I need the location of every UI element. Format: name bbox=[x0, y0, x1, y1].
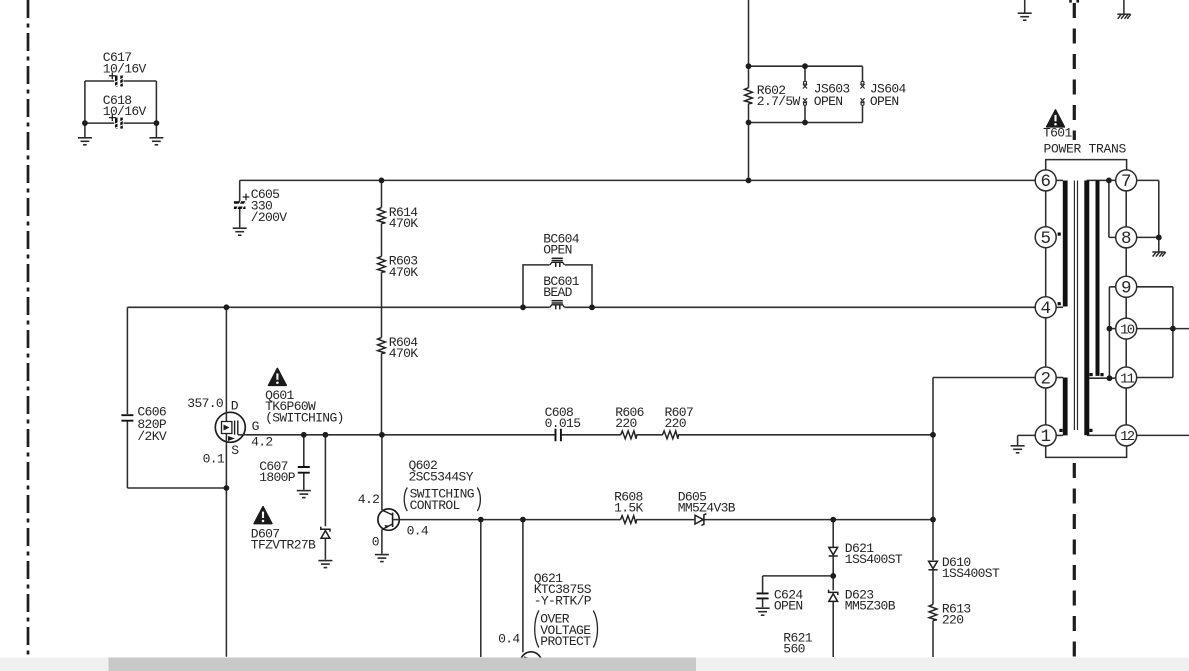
svg-text:CONTROL: CONTROL bbox=[410, 498, 460, 513]
winding polarity dot pin1 bbox=[1059, 429, 1062, 432]
resistor R608 bbox=[614, 490, 643, 524]
junction C618 right bbox=[154, 120, 160, 126]
transformer T601 bbox=[1046, 160, 1127, 458]
pin 4 bbox=[1035, 297, 1056, 319]
label Q602 bbox=[409, 458, 474, 484]
wire pin1 to winding bbox=[1056, 434, 1063, 436]
wire pin11 right bbox=[1137, 377, 1173, 379]
svg-text:7: 7 bbox=[1121, 172, 1132, 192]
junction top rail / R602 bbox=[746, 178, 752, 184]
svg-text:1SS400ST: 1SS400ST bbox=[845, 552, 903, 567]
wire pin2 to feedback bbox=[933, 377, 1035, 379]
junction gate rail / feedback drop bbox=[930, 432, 936, 438]
svg-text:OPEN: OPEN bbox=[543, 243, 572, 258]
pin 2 bbox=[1035, 367, 1056, 389]
resistor R613 bbox=[929, 602, 970, 628]
ground (C605) bbox=[233, 228, 247, 235]
wire mid rail (snubber rail to pin 4) bbox=[127, 306, 1035, 308]
wire pin10 right bbox=[1137, 328, 1189, 330]
wire winding to pin7 bbox=[1087, 179, 1116, 181]
junction gate rail / C607 bbox=[301, 432, 307, 438]
svg-text:OPEN: OPEN bbox=[814, 94, 843, 109]
dash marks at top edge bbox=[1069, 0, 1072, 3]
junction base rail / feedback drop bbox=[930, 517, 936, 523]
wire C607 branch bbox=[303, 435, 305, 490]
wire Q602 emitter bbox=[381, 530, 383, 554]
diode D621 bbox=[829, 541, 903, 567]
svg-text:6: 6 bbox=[1040, 172, 1051, 192]
svg-text:S: S bbox=[231, 443, 239, 458]
svg-text:/2KV: /2KV bbox=[137, 429, 166, 444]
junction pin7 bbox=[1106, 178, 1112, 184]
wire pin2 to winding bbox=[1056, 377, 1063, 379]
transformer core lines bbox=[1074, 181, 1077, 431]
wire pin11 left link bbox=[1087, 377, 1116, 379]
winding polarity dot pin4 bbox=[1058, 302, 1061, 305]
svg-text:T601: T601 bbox=[1043, 126, 1072, 141]
transformer top bracket bbox=[1046, 160, 1127, 170]
junction pin11 left bbox=[1107, 375, 1113, 381]
zener D605 bbox=[678, 490, 736, 526]
resistor R607 bbox=[663, 405, 694, 439]
diode D610 bbox=[928, 555, 1000, 581]
wire C606 branch bbox=[127, 307, 226, 488]
label Q602 paren block bbox=[404, 487, 480, 514]
scrollbar thumb bbox=[109, 658, 697, 671]
bead BC604 loop bbox=[523, 265, 592, 307]
junction pin8 right bbox=[1156, 235, 1162, 241]
wire OVP divider drop 1 bbox=[480, 520, 482, 657]
svg-text:10: 10 bbox=[1120, 322, 1135, 338]
wire pin8 left link bbox=[1109, 180, 1116, 237]
ground (C618 right) bbox=[149, 138, 163, 145]
junction D621 / D623 / C624 bbox=[830, 573, 836, 579]
isolation boundary dashed line (upper) bbox=[1073, 3, 1076, 140]
pin 5 bbox=[1035, 227, 1056, 249]
svg-text:MM5Z30B: MM5Z30B bbox=[845, 599, 896, 614]
svg-text:0: 0 bbox=[372, 535, 379, 550]
junction JS603 bottom bbox=[802, 120, 808, 126]
resistor R602 bbox=[745, 83, 801, 109]
wire Q621 base drop bbox=[522, 520, 524, 653]
svg-text:470K: 470K bbox=[389, 216, 418, 231]
MOSFET Q601 bbox=[215, 412, 245, 442]
capacitor C618 bbox=[103, 93, 147, 129]
svg-text:357.0: 357.0 bbox=[187, 396, 223, 411]
svg-text:PROTECT: PROTECT bbox=[540, 634, 591, 649]
pin 12 bbox=[1116, 425, 1137, 446]
wire JS box top bbox=[749, 65, 863, 67]
svg-text:0.4: 0.4 bbox=[407, 523, 429, 538]
wire JS603 stubs bbox=[804, 66, 806, 122]
transformer primary winding bar (pins 6-4) bbox=[1063, 181, 1068, 307]
resistor R614 bbox=[378, 205, 419, 231]
zener D623 bbox=[829, 588, 896, 614]
capacitor C607 bbox=[259, 459, 310, 485]
svg-text:TFZVTR27B: TFZVTR27B bbox=[251, 538, 316, 553]
svg-text:MM5Z4V3B: MM5Z4V3B bbox=[678, 501, 736, 516]
svg-text:2SC5344SY: 2SC5344SY bbox=[409, 469, 474, 484]
capacitor C605 bbox=[234, 187, 287, 225]
svg-text:1.5K: 1.5K bbox=[614, 501, 643, 516]
ground (C607) bbox=[297, 491, 311, 498]
junction mid rail / Q601 drain bbox=[224, 304, 230, 310]
wire pin6 to winding bbox=[1056, 179, 1063, 181]
svg-text:0.1: 0.1 bbox=[203, 451, 225, 466]
wire top ground stub bbox=[1024, 0, 1026, 13]
svg-text:POWER TRANS: POWER TRANS bbox=[1044, 141, 1127, 156]
transformer secondary winding bar (tall) bbox=[1084, 181, 1089, 436]
junction C606 bottom / source line bbox=[224, 485, 230, 491]
svg-text:OPEN: OPEN bbox=[870, 94, 899, 109]
wire top chassis ground stub bbox=[1123, 0, 1125, 14]
winding polarity dot pin11 b bbox=[1100, 373, 1103, 376]
transformer primary winding bar (pins 2-1) bbox=[1063, 378, 1068, 436]
svg-text:2: 2 bbox=[1040, 369, 1051, 389]
wire C618 loop bottom bbox=[85, 122, 156, 124]
transistor Q602 bbox=[378, 509, 400, 530]
transformer secondary winding bar (short) bbox=[1096, 181, 1100, 376]
wire R602 top feed bbox=[748, 0, 750, 180]
capacitor C617 bbox=[103, 50, 147, 87]
wire pin4 to winding bbox=[1056, 306, 1063, 308]
svg-text:220: 220 bbox=[665, 416, 686, 431]
wire Q601 source (to bottom) bbox=[225, 442, 227, 657]
wire C605 stem bbox=[239, 180, 241, 227]
ground (pin 1) bbox=[1011, 446, 1025, 453]
ground (D607) bbox=[318, 561, 332, 568]
ground (top edge) bbox=[1018, 13, 1032, 20]
wire C624 link bbox=[763, 576, 834, 607]
junction JS box top left bbox=[746, 63, 752, 69]
wire C617 loop sides bbox=[85, 81, 156, 123]
svg-text:4.2: 4.2 bbox=[358, 492, 379, 507]
warning triangle Q601 bbox=[269, 368, 287, 385]
wire D621/D623 branch bbox=[832, 520, 834, 657]
resistor R604 bbox=[378, 335, 419, 361]
wire Q602 base rail bbox=[399, 519, 933, 521]
wire pin8 right bbox=[1137, 237, 1159, 251]
wire pin2 feedback drop (D610/R613) bbox=[932, 378, 934, 658]
svg-text:12: 12 bbox=[1120, 429, 1135, 445]
junction gate rail / D607 bbox=[323, 432, 329, 438]
capacitor C606 bbox=[121, 405, 166, 445]
jumper JS604 (open) bbox=[860, 81, 906, 109]
wire pin1 ground stub bbox=[1018, 435, 1036, 445]
ground (C617 left) bbox=[78, 138, 92, 145]
chassis ground (pin 8) bbox=[1152, 252, 1165, 257]
wire pin9 left link bbox=[1109, 287, 1115, 378]
wire pin9 right bbox=[1137, 287, 1173, 378]
junction C618 left bbox=[82, 120, 88, 126]
bead BC601 bbox=[543, 274, 580, 309]
svg-text:10/16V: 10/16V bbox=[103, 62, 147, 77]
svg-text:8: 8 bbox=[1121, 229, 1132, 249]
label R621 bbox=[783, 631, 812, 657]
winding polarity dot pin5 bbox=[1058, 233, 1061, 236]
junction top rail / R614 bbox=[379, 178, 385, 184]
pin 10 bbox=[1116, 318, 1137, 339]
isolation boundary dashed line (lower) bbox=[1073, 463, 1076, 657]
svg-text:470K: 470K bbox=[389, 346, 418, 361]
capacitor C624 bbox=[757, 588, 804, 614]
svg-text:1800P: 1800P bbox=[259, 470, 296, 485]
wire pin12 right bbox=[1137, 434, 1189, 436]
wire top rail (B+ to pin 6) bbox=[240, 179, 1035, 181]
scrollbar track bbox=[0, 658, 1189, 671]
transformer right pin links bbox=[1125, 191, 1127, 425]
page border (dash-dot, left edge) bbox=[27, 0, 30, 657]
ground (Q602) bbox=[375, 555, 389, 562]
svg-text:D: D bbox=[231, 399, 239, 414]
junction gate rail / R604 / Q602 bbox=[379, 432, 385, 438]
label Q621 paren block bbox=[535, 611, 598, 650]
svg-text:11: 11 bbox=[1120, 371, 1135, 387]
svg-text:-Y-RTK/P: -Y-RTK/P bbox=[534, 593, 592, 608]
label T601 bbox=[1043, 126, 1127, 157]
resistor R603 bbox=[378, 254, 419, 280]
pin 8 bbox=[1116, 227, 1137, 249]
junction JS603 top bbox=[802, 63, 808, 69]
wire JS604 stubs bbox=[862, 66, 864, 122]
junction pin10 left bbox=[1107, 326, 1113, 332]
svg-text:(SWITCHING): (SWITCHING) bbox=[265, 411, 344, 426]
transformer bottom bracket bbox=[1046, 446, 1127, 458]
wire JS box bottom bbox=[749, 122, 863, 124]
resistor R606 bbox=[615, 405, 644, 439]
winding polarity dot pin11 a bbox=[1090, 373, 1093, 376]
wire C617 ground stems bbox=[85, 123, 156, 137]
wire C617 loop top bbox=[85, 80, 156, 82]
wire R614/R603 divider chain bbox=[381, 180, 383, 434]
svg-text:0.015: 0.015 bbox=[545, 416, 581, 431]
junction base rail / D621 bbox=[830, 517, 836, 523]
jumper JS603 (open) bbox=[803, 81, 850, 109]
label Q601 bbox=[265, 388, 344, 426]
ground (C624) bbox=[756, 608, 770, 615]
zener D607 bbox=[321, 527, 330, 539]
pin 1 bbox=[1035, 425, 1056, 447]
capacitor C608 bbox=[545, 405, 581, 441]
transistor Q621 (partially hidden) bbox=[520, 652, 541, 671]
svg-text:10/16V: 10/16V bbox=[103, 104, 147, 119]
junction JS box bottom left bbox=[746, 120, 752, 126]
label D607 bbox=[251, 527, 316, 553]
wire gate rail bbox=[245, 434, 933, 436]
wire pin10 left link bbox=[1109, 328, 1115, 330]
svg-text:0.4: 0.4 bbox=[498, 632, 520, 647]
junction BC601 left bbox=[520, 304, 526, 310]
label Q621 bbox=[534, 571, 592, 608]
warning triangle D607 bbox=[254, 507, 272, 524]
wire Q602 collector bbox=[381, 435, 383, 510]
pin 7 bbox=[1116, 170, 1137, 192]
wire pin7 to secondary bbox=[1137, 180, 1159, 237]
svg-text:1SS400ST: 1SS400ST bbox=[942, 566, 1000, 581]
svg-text:9: 9 bbox=[1121, 279, 1132, 299]
junction BC601 right bbox=[589, 304, 595, 310]
transformer left pin links bbox=[1045, 191, 1047, 425]
svg-text:4.2: 4.2 bbox=[251, 434, 272, 449]
pin 11 bbox=[1116, 367, 1137, 388]
wire D607 branch bbox=[324, 435, 326, 560]
svg-text:470K: 470K bbox=[389, 265, 418, 280]
svg-text:1: 1 bbox=[1040, 427, 1051, 447]
svg-text:G: G bbox=[252, 419, 259, 434]
junction pin10 right bbox=[1170, 326, 1176, 332]
svg-text:220: 220 bbox=[615, 416, 636, 431]
svg-text:4: 4 bbox=[1040, 299, 1051, 319]
svg-text:/200V: /200V bbox=[251, 210, 288, 225]
winding polarity dot pin12 bbox=[1089, 429, 1092, 432]
pin 6 bbox=[1035, 170, 1056, 192]
svg-text:5: 5 bbox=[1040, 229, 1051, 249]
junction base rail / Q621 base bbox=[520, 517, 526, 523]
wire Q601 drain bbox=[225, 307, 227, 412]
svg-text:560: 560 bbox=[783, 642, 804, 657]
svg-text:BEAD: BEAD bbox=[543, 285, 572, 300]
svg-text:2.7/5W: 2.7/5W bbox=[757, 94, 801, 109]
warning triangle T601 bbox=[1047, 110, 1065, 127]
pin 9 bbox=[1116, 276, 1137, 298]
junction base rail / OVP drop bbox=[478, 517, 484, 523]
svg-text:220: 220 bbox=[942, 613, 963, 628]
chassis ground (top edge) bbox=[1117, 14, 1130, 19]
svg-text:OPEN: OPEN bbox=[774, 599, 803, 614]
wire pin12 left link bbox=[1087, 434, 1116, 436]
bead BC604 bbox=[543, 232, 580, 268]
